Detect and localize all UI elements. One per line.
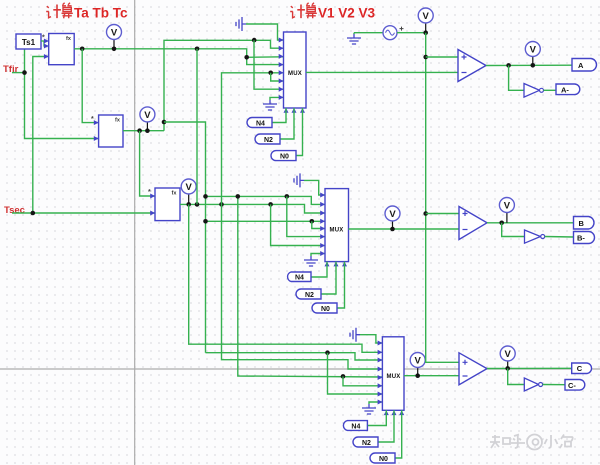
wire MUX3 pin1 to N4: [367, 410, 386, 425]
wire A2out riser to MUX1 row: [164, 40, 284, 130]
node junction AC out: [423, 30, 428, 35]
wire MUX2 pin2 to N2: [321, 262, 336, 294]
wire A2 output: [123, 130, 164, 132]
node N2 label (MUX3): [353, 437, 378, 447]
wire MUX3 output: [404, 375, 459, 377]
wire branch to inverter C: [508, 368, 525, 384]
wire crossbar y122 to v206: [164, 122, 206, 353]
page divider vertical line: [134, 0, 136, 465]
wire branch to MUX1 in7: [254, 40, 284, 89]
wire riser v238 to MUX3 h5: [238, 196, 383, 377]
wire AC right to reference riser: [397, 32, 426, 34]
wire A1 output bus: [74, 49, 283, 65]
multiplexer MUX2: [320, 189, 348, 267]
node junction A1out-b: [112, 47, 117, 52]
svg-text:Ts1: Ts1: [22, 38, 36, 47]
wire branch to MUX1 in6: [271, 73, 284, 81]
AC source V6: [383, 26, 404, 40]
node C label: [572, 363, 592, 374]
svg-text:N0: N0: [280, 154, 289, 161]
node junction A1out-c: [195, 47, 200, 52]
wire inverter C to C- label: [543, 384, 565, 386]
inverter X2 (B-): [525, 230, 545, 243]
wire C (v206 to MUX2 in4): [206, 220, 326, 222]
voltmeter V7 (AC): [418, 8, 433, 33]
ground MUX1 bottom: [263, 97, 284, 110]
node junction MUX3out: [415, 373, 420, 378]
voltmeter V2: [140, 107, 155, 131]
wire A1 in3 riser from Tsec: [33, 57, 49, 214]
wire branch to MUX1 in3: [247, 56, 284, 59]
node junction wA-1: [203, 194, 208, 199]
wire branch to inverter B: [502, 223, 525, 237]
voltmeter V5 (MUX3 out): [410, 353, 425, 376]
svg-text:MUX: MUX: [330, 228, 344, 234]
block A2 subtractor: [91, 115, 123, 147]
node junction Aout-1: [506, 63, 511, 68]
multiplexer MUX1: [279, 32, 306, 113]
node B- label: [574, 232, 595, 244]
node junction in5 branch: [268, 71, 273, 76]
node junction ref-B: [423, 211, 428, 216]
node N0 label (MUX2): [312, 303, 337, 313]
wire MUX1 output: [306, 71, 458, 73]
wire branch to MUX3 in7: [328, 353, 383, 394]
op-amp U1 (comparator A): [458, 50, 486, 82]
svg-text:*: *: [91, 116, 94, 123]
wire riser v197: [196, 49, 198, 205]
node C- label: [565, 380, 585, 391]
voltmeter V1: [107, 25, 122, 49]
svg-text:Ta Tb Tc: Ta Tb Tc: [74, 6, 128, 21]
wire inverter B to B- label: [545, 236, 574, 239]
node junction Tfir: [22, 70, 27, 75]
svg-text:MUX: MUX: [288, 71, 302, 77]
page divider horizontal line: [0, 368, 600, 370]
node junction MUX2out: [390, 227, 395, 232]
svg-text:V1 V2 V3: V1 V2 V3: [318, 6, 376, 21]
svg-text:B-: B-: [577, 234, 585, 243]
svg-text:N2: N2: [264, 137, 273, 144]
wire MUX3 pin3 to N0: [395, 410, 402, 458]
node junction A3out-a: [186, 202, 191, 207]
ground MUX1 top: [236, 17, 284, 40]
wire Ts1 to A1 inputs: [41, 41, 49, 46]
node junction A1out-a: [80, 47, 85, 52]
svg-text:N0: N0: [379, 456, 388, 463]
wire op-amp B output: [487, 222, 574, 224]
node junction Cout-1: [505, 366, 510, 371]
svg-text:N4: N4: [351, 424, 360, 431]
svg-text:C-: C-: [568, 381, 576, 390]
watermark 知乎 @小包: [490, 435, 573, 450]
wire A3 output (to MUX2 in3): [180, 204, 325, 213]
wire branch to MUX2 in6: [287, 196, 325, 236]
node N0 label (MUX3): [370, 453, 395, 463]
node junction w40: [252, 38, 257, 43]
wire MUX1 pin2 to N2: [280, 108, 294, 139]
svg-text:N2: N2: [362, 440, 371, 447]
ground AC source: [347, 33, 361, 44]
voltmeter V3: [181, 179, 196, 204]
node junction A2out-a: [137, 128, 142, 133]
wire branch to MUX3 in6: [343, 376, 382, 385]
wire MUX2 pin3 to N0: [337, 262, 345, 308]
title 计算V1 V2 V3 (red): [290, 3, 375, 21]
node N2 label (MUX1): [255, 134, 280, 144]
node N4 label (MUX1): [247, 118, 272, 128]
multiplexer MUX3: [378, 337, 405, 415]
op-amp U2 (comparator B): [459, 207, 487, 240]
wire Tsec horizontal to A3 in2: [12, 212, 155, 214]
wire op-amp A output: [486, 64, 572, 66]
node junction h2 branch: [325, 350, 330, 355]
wire MUX2 output: [349, 228, 460, 230]
wire branch to inverter A: [509, 65, 524, 90]
node N2 label (MUX2): [296, 289, 321, 299]
svg-text:N2: N2: [305, 292, 314, 299]
wire ref to op-amp B plus: [426, 213, 459, 215]
title 计算Ta Tb Tc (red): [46, 3, 128, 21]
node junction wA-2: [236, 194, 241, 199]
node A- label: [556, 84, 580, 95]
node Tsec label: [4, 205, 25, 216]
wire A (bundle to MUX2 in2): [206, 196, 326, 204]
node junction Tsec: [31, 211, 36, 216]
wire Tfir stub: [12, 72, 25, 74]
wire AC left: [354, 32, 383, 34]
wire MUX3 pin2 to N2: [378, 410, 394, 442]
svg-text:A: A: [578, 61, 584, 70]
svg-text:C: C: [577, 364, 583, 373]
ground MUX2 top: [294, 173, 325, 195]
wire riser v221 (A3 net) to MUX1 in5 and MUX3 h3: [222, 73, 383, 369]
node junction x164: [162, 120, 167, 125]
node N0 label (MUX1): [271, 151, 296, 161]
ground MUX3 top: [350, 328, 382, 343]
wire inverter A to A- label: [544, 89, 557, 91]
block A1 subtractor: [42, 34, 74, 65]
wire reference riser (feeds + inputs): [426, 33, 459, 363]
node junction ref-A: [423, 55, 428, 60]
node junction Bout-1: [499, 221, 504, 226]
node junction A3out-d: [268, 202, 273, 207]
ground MUX3 bottom: [362, 402, 382, 414]
wire branch to MUX2 in5: [312, 221, 325, 228]
node N4 label (MUX3): [343, 421, 367, 431]
wire A2out down to A3 in1: [140, 131, 155, 196]
node junction wA-3: [285, 194, 290, 199]
ground MUX2 bottom: [304, 254, 325, 267]
wire riser v188 to MUX3 h1: [189, 204, 383, 352]
voltmeter V9 (B out): [499, 198, 514, 223]
voltmeter V10 (C out): [500, 346, 515, 368]
voltmeter V8 (A out): [525, 42, 540, 66]
node A label: [572, 59, 597, 72]
node junction A1out-d: [244, 55, 249, 60]
node junction h5 branch: [341, 374, 346, 379]
wire Tfir riser to A2 in2: [25, 49, 99, 139]
node junction Aout-2: [531, 63, 536, 68]
svg-text:N4: N4: [295, 275, 304, 282]
inverter X3 (C-): [524, 378, 542, 391]
block Ts1 source: [16, 34, 41, 49]
node junction A3out-b: [195, 202, 200, 207]
svg-text:Tfir: Tfir: [3, 64, 19, 75]
wire MUX1 pin1 to N4: [272, 108, 286, 123]
wire op-amp C output: [487, 367, 572, 369]
wire branch to MUX2 in7: [271, 204, 325, 245]
block A3 subtractor: [148, 188, 180, 221]
node N4 label (MUX2): [288, 272, 311, 282]
node junction wC-1: [203, 219, 208, 224]
voltmeter V4 (MUX2 out): [385, 206, 400, 229]
inverter X1 (A-): [524, 84, 544, 98]
wire h2 step to MUX3 in3: [206, 353, 383, 360]
node B label: [574, 217, 595, 230]
svg-text:B: B: [579, 219, 585, 228]
node junction wC-2: [310, 219, 315, 224]
node junction A3out-c: [219, 202, 224, 207]
op-amp U3 (comparator C): [459, 353, 487, 385]
wire ref to op-amp A plus: [426, 56, 458, 58]
node Tfir label: [3, 64, 19, 75]
svg-text:MUX: MUX: [387, 374, 401, 380]
svg-text:N4: N4: [256, 121, 265, 128]
wire A1out down to A2 in1: [82, 49, 98, 123]
svg-text:Tsec: Tsec: [4, 205, 25, 216]
svg-text:N0: N0: [321, 306, 330, 313]
node junction A2out-b: [145, 128, 150, 133]
wire MUX2 pin1 to N4: [311, 262, 327, 277]
wire MUX1 pin3 to N0: [296, 108, 303, 156]
svg-text:A-: A-: [561, 85, 569, 94]
